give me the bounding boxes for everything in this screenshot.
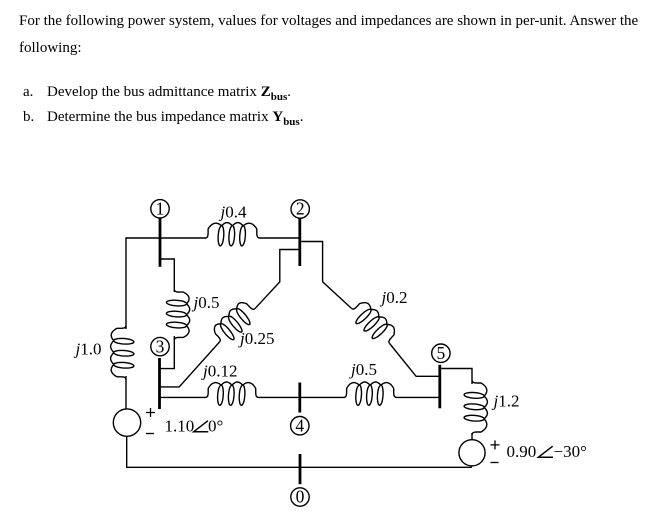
- svg-text:j0.5: j0.5: [192, 293, 220, 312]
- svg-text:4: 4: [295, 415, 304, 435]
- bus bar 1: [159, 219, 162, 267]
- wire bottom: [126, 466, 472, 468]
- wire j0.2 to bus5: [390, 344, 439, 377]
- plus sign V2: [491, 440, 500, 449]
- svg-text:−30°: −30°: [554, 442, 587, 461]
- svg-text:0°: 0°: [208, 417, 223, 436]
- plus sign V1: [146, 408, 155, 417]
- bus circle 3: [151, 337, 169, 355]
- inductor j1.2: [464, 380, 487, 434]
- bus circle 2: [291, 200, 309, 218]
- svg-text:j0.4: j0.4: [219, 203, 247, 222]
- inductor j0.2: [352, 303, 395, 344]
- inductor j0.25: [214, 303, 255, 342]
- svg-text:3: 3: [156, 336, 165, 356]
- svg-text:j0.12: j0.12: [201, 362, 237, 381]
- wire bus5 to j1.2: [441, 369, 472, 385]
- wire bus2 to j0.2: [301, 242, 351, 309]
- svg-text:j0.2: j0.2: [380, 288, 408, 307]
- svg-text:0: 0: [296, 487, 305, 507]
- svg-text:2: 2: [296, 199, 305, 219]
- bus circle 4: [291, 417, 309, 435]
- wire j1.2 to source V2: [471, 433, 473, 440]
- bus bar 3: [158, 358, 161, 409]
- wire j0.12 to bus4: [258, 396, 300, 398]
- svg-text:j0.25: j0.25: [238, 329, 274, 348]
- svg-text:1.10: 1.10: [165, 417, 195, 436]
- inductor j0.5 left: [166, 290, 189, 341]
- bus circle 0: [291, 488, 309, 506]
- wire bus3 to j0.25: [159, 342, 220, 387]
- wire left vertical upper: [125, 237, 127, 329]
- bus bar 2: [298, 218, 301, 266]
- svg-text:5: 5: [437, 343, 446, 363]
- wire left vertical lower: [125, 376, 127, 409]
- bus bar 4: [298, 383, 301, 413]
- wire j0.5b to bus5: [396, 396, 440, 398]
- inductor j0.12: [206, 382, 259, 405]
- wire bus1 to j0.5: [159, 259, 175, 292]
- wire top coil to bus2: [259, 237, 300, 239]
- bus circle 5: [432, 344, 450, 362]
- bus circle 1: [151, 200, 169, 218]
- inductor j0.5 bottom: [344, 382, 396, 405]
- svg-text:j0.5: j0.5: [349, 360, 377, 379]
- wire j0.25 to bus2: [255, 250, 299, 309]
- wire top bus1-bus2 left segment: [126, 237, 206, 239]
- minus sign V1: [146, 433, 154, 435]
- wire j0.5 to bus3: [159, 336, 175, 369]
- inductor j0.4: [206, 223, 260, 246]
- svg-text:j1.0: j1.0: [74, 340, 102, 359]
- svg-text:j1.2: j1.2: [492, 392, 520, 411]
- wire bus3 to j0.12: [159, 396, 206, 398]
- wire bus4 to j0.5b: [300, 396, 345, 398]
- source V2 0.90: [459, 440, 485, 466]
- minus sign V2: [491, 462, 499, 464]
- inductor j1.0: [111, 326, 134, 380]
- source V1 1.10: [113, 409, 140, 436]
- svg-text:0.90: 0.90: [507, 442, 537, 461]
- wire source V1 to bottom: [126, 436, 128, 468]
- bus bar 5: [438, 365, 441, 409]
- bus bar 0: [299, 454, 302, 484]
- svg-text:1: 1: [156, 199, 165, 219]
